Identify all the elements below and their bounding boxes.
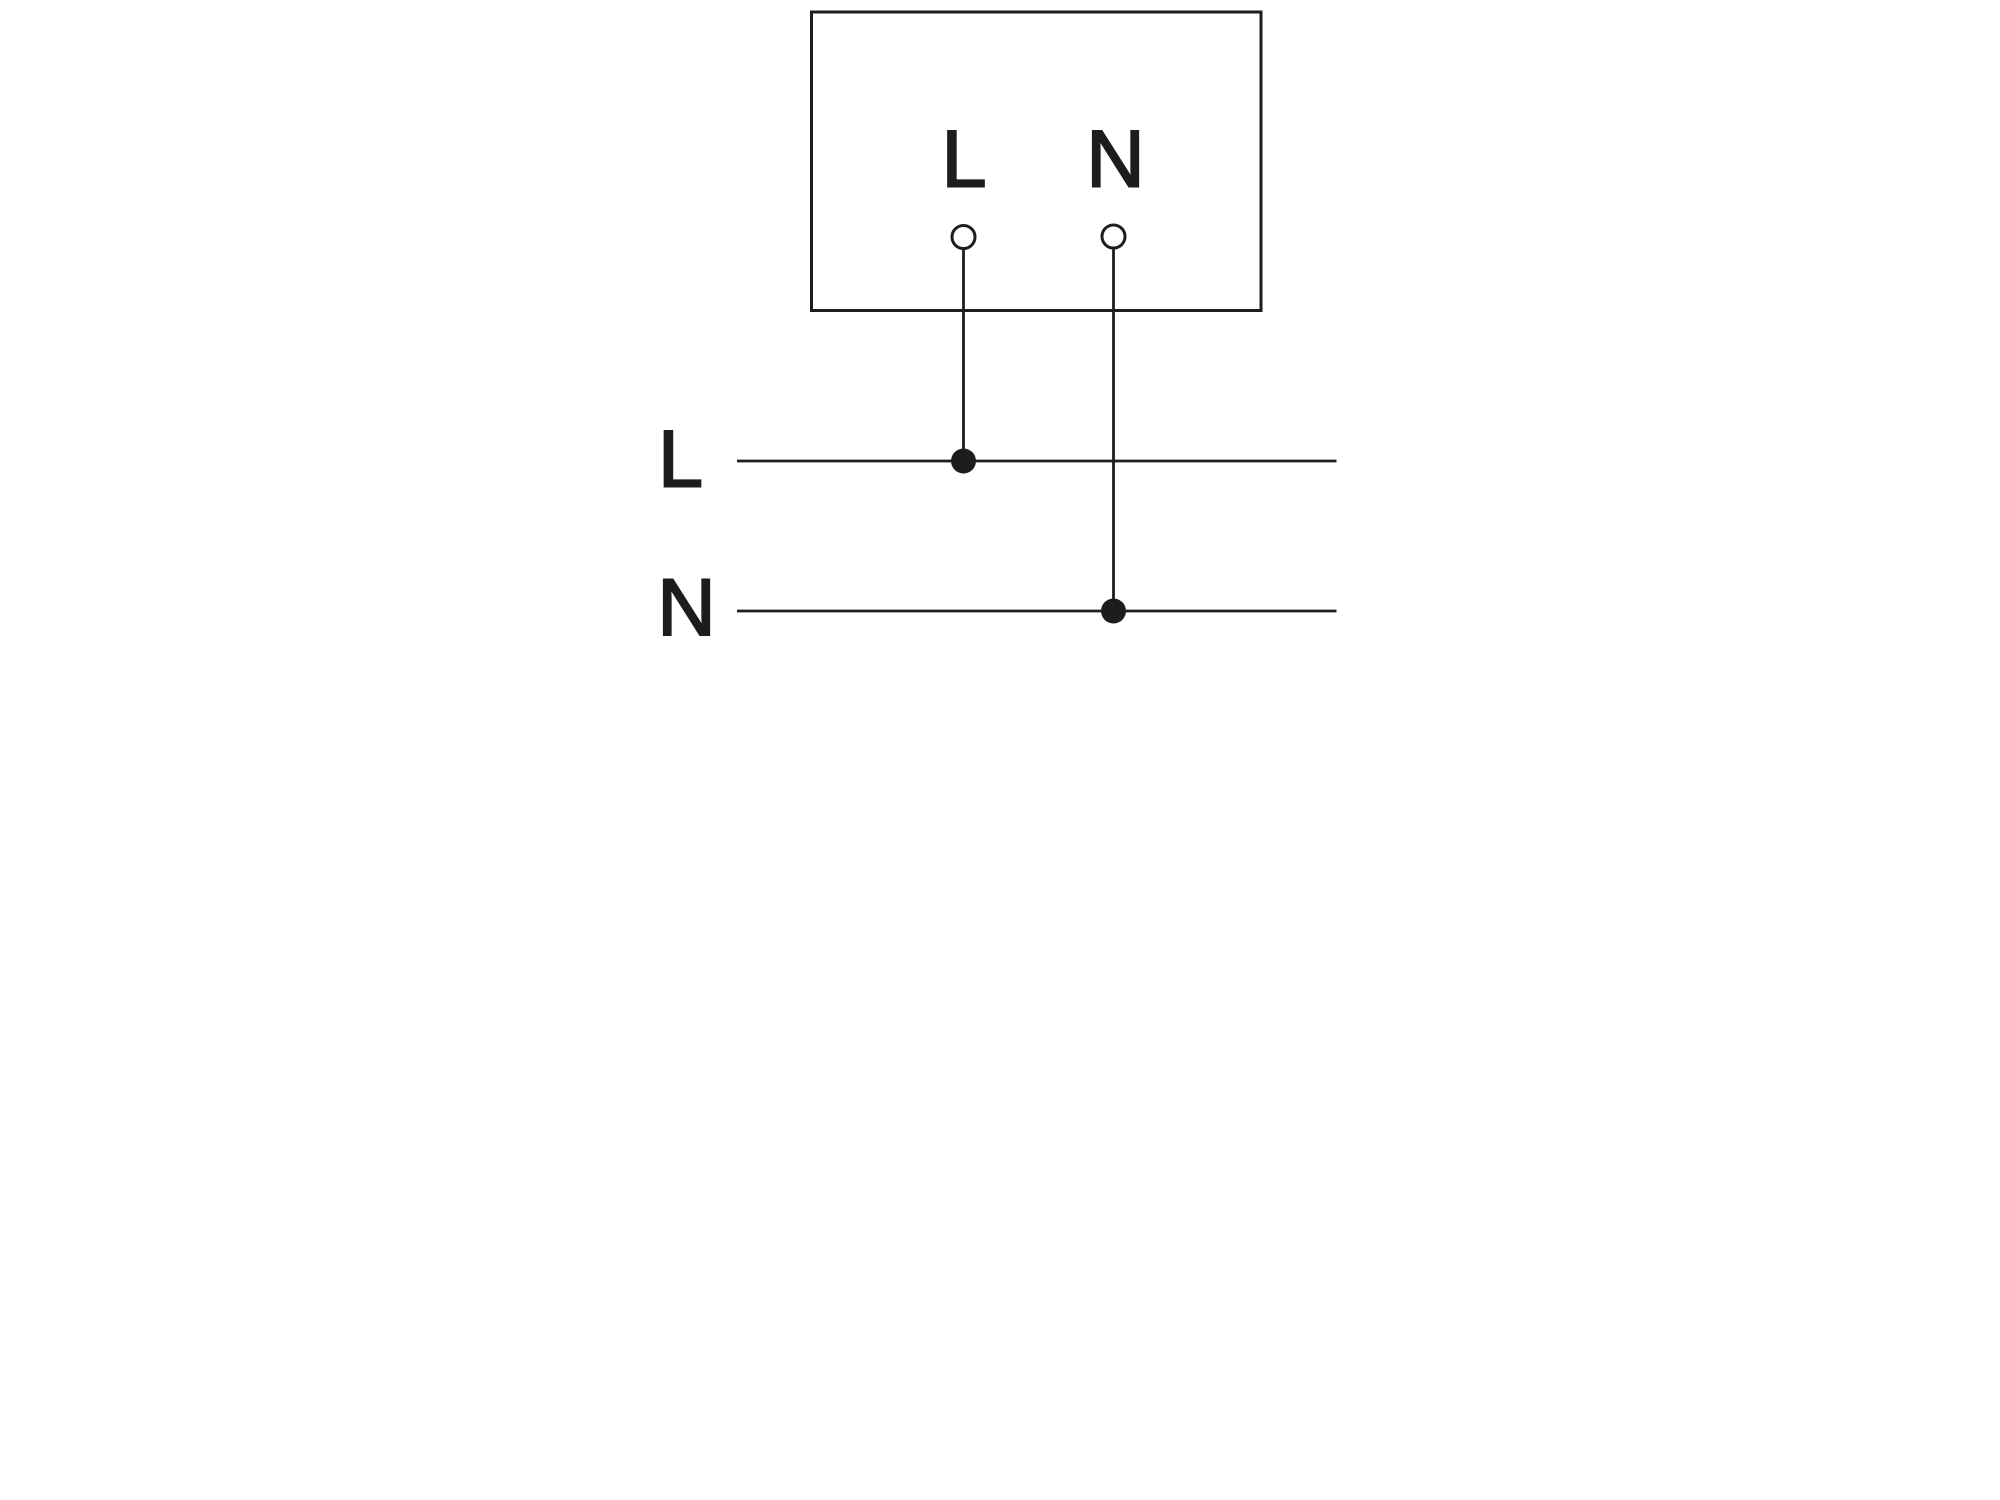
terminal circle N [1102,225,1125,248]
wire L vertical [962,250,965,461]
wire N bus horizontal [737,610,1337,613]
terminal circle L [952,226,975,249]
svg-text:N: N [657,563,716,653]
wire L bus horizontal [737,460,1337,463]
junction dot on L bus [951,449,976,474]
device box U1 [812,12,1262,311]
svg-text:L: L [941,115,986,205]
junction dot on N bus [1101,599,1126,624]
svg-text:N: N [1086,115,1145,205]
svg-text:L: L [658,415,703,505]
wire N vertical [1112,250,1115,612]
